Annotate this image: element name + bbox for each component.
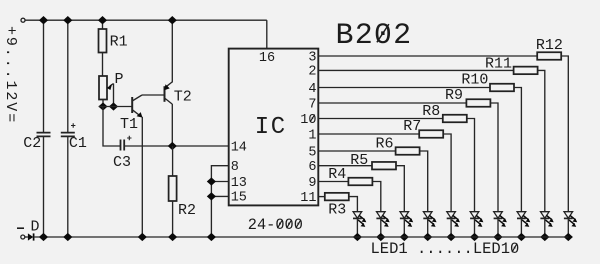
wire C1 branch top bbox=[67, 20, 69, 132]
svg-text:IC: IC bbox=[255, 114, 287, 141]
slash zero of pin 10 bbox=[310, 115, 315, 122]
label minus bbox=[17, 227, 24, 229]
svg-text:D: D bbox=[31, 219, 40, 236]
LED3 bbox=[400, 212, 413, 227]
potentiometer P bbox=[99, 76, 107, 100]
svg-text:+9...12V=: +9...12V= bbox=[2, 26, 19, 124]
wire T2 emitter to rail bbox=[171, 20, 173, 82]
wire LED10 cathode bbox=[567, 218, 569, 237]
LED9 bbox=[540, 212, 553, 227]
LED8 bbox=[517, 212, 530, 227]
svg-text:14: 14 bbox=[231, 140, 247, 155]
wire pin6 to R5 bbox=[318, 165, 372, 167]
node rail LED10 bbox=[564, 233, 573, 241]
svg-text:15: 15 bbox=[231, 191, 247, 206]
wire pin15 bbox=[211, 195, 228, 197]
wire R11 to LED9 bbox=[538, 70, 545, 211]
wire C1 branch bottom bbox=[67, 136, 69, 237]
capacitor C3 bbox=[121, 136, 132, 151]
svg-text:13: 13 bbox=[231, 176, 247, 191]
node pin14/R2/T2 junction bbox=[168, 142, 177, 150]
wire R6 to LED4 bbox=[420, 151, 428, 212]
resistor R8 bbox=[443, 115, 467, 123]
resistor R5 bbox=[372, 162, 396, 170]
wire C2 branch bottom bbox=[43, 136, 45, 237]
svg-text:C1: C1 bbox=[69, 135, 87, 152]
op IC box bbox=[229, 49, 319, 206]
svg-text:T2: T2 bbox=[174, 89, 192, 106]
wire junction to R2 bbox=[172, 146, 174, 176]
diode D bbox=[28, 233, 34, 240]
svg-text:R4: R4 bbox=[328, 166, 346, 183]
slash zero of LED10 bbox=[512, 244, 517, 253]
resistor R1 bbox=[99, 29, 107, 53]
wire pin11 to R3 bbox=[318, 196, 325, 198]
wire C2 branch top bbox=[43, 20, 45, 132]
LED6 bbox=[470, 212, 483, 227]
svg-text:8: 8 bbox=[231, 160, 239, 175]
node rail LED4 bbox=[423, 233, 432, 241]
svg-text:R10: R10 bbox=[461, 71, 488, 88]
LED4 bbox=[423, 212, 436, 227]
svg-text:R5: R5 bbox=[350, 152, 368, 169]
svg-text:R12: R12 bbox=[536, 37, 563, 54]
svg-text:6: 6 bbox=[308, 160, 316, 175]
wire T1 collector to T2 base bbox=[142, 94, 165, 96]
svg-text:C2: C2 bbox=[23, 135, 41, 152]
wire LED9 cathode bbox=[544, 218, 546, 237]
wire LED4 cathode bbox=[427, 218, 429, 237]
wire bottom rail bbox=[34, 236, 569, 238]
wire LED2 cathode bbox=[380, 218, 382, 237]
capacitor C2 bbox=[37, 133, 51, 137]
slash zeros of 24-000 bbox=[277, 220, 300, 228]
node P-T1 junction left bbox=[98, 102, 107, 110]
wire T1 emitter down bbox=[141, 117, 143, 237]
wire P down to C3 bbox=[103, 107, 121, 147]
node top rail C1 bbox=[63, 16, 72, 24]
svg-text:P: P bbox=[115, 71, 124, 88]
wire LED7 cathode bbox=[497, 218, 499, 237]
wire R4 to LED2 bbox=[372, 182, 380, 212]
wire LED3 cathode bbox=[403, 218, 405, 237]
node rail LED8 bbox=[517, 233, 526, 241]
resistor R6 bbox=[396, 147, 420, 155]
svg-text:R9: R9 bbox=[445, 87, 463, 104]
wire R10 to LED8 bbox=[514, 88, 521, 212]
slash zero of B202 bbox=[377, 24, 389, 42]
node top rail T2 bbox=[168, 16, 177, 24]
svg-text:R2: R2 bbox=[178, 202, 196, 219]
wire base feed to T1 bbox=[99, 106, 133, 108]
svg-text:11: 11 bbox=[300, 191, 316, 206]
svg-text:R8: R8 bbox=[422, 103, 440, 120]
supply terminal - (open circle) bbox=[21, 235, 25, 239]
node rail LED2 bbox=[376, 233, 385, 241]
wire T2 collector down bbox=[171, 104, 173, 146]
wire R3 to LED1 bbox=[349, 197, 358, 212]
wire terminal to diode bbox=[25, 236, 28, 238]
svg-text:C3: C3 bbox=[113, 154, 131, 171]
node pin15 junction bbox=[207, 192, 216, 200]
svg-text:LED1 ......LED10: LED1 ......LED10 bbox=[371, 240, 520, 258]
svg-text:T1: T1 bbox=[120, 116, 138, 133]
wire LED1 cathode bbox=[356, 218, 358, 237]
wire pin1 to R7 bbox=[318, 133, 419, 135]
node bottom T1 bbox=[138, 233, 147, 241]
wire pin9 to R4 bbox=[318, 181, 348, 183]
node bottom R2 bbox=[168, 233, 177, 241]
wire R5 to LED3 bbox=[396, 166, 404, 212]
resistor R3 bbox=[325, 193, 349, 201]
wire R2 bottom bbox=[172, 201, 174, 237]
wire LED8 cathode bbox=[520, 218, 522, 237]
transistor T1 bbox=[132, 95, 142, 118]
transistor T2 bbox=[164, 82, 172, 104]
svg-text:R3: R3 bbox=[328, 202, 346, 219]
resistor R9 bbox=[466, 99, 490, 107]
wire pin13 bbox=[211, 181, 228, 183]
node bottom C1 bbox=[63, 233, 72, 241]
wire R12 to LED10 bbox=[561, 56, 568, 212]
wire R7 to LED5 bbox=[443, 134, 451, 212]
svg-text:R1: R1 bbox=[110, 34, 128, 51]
svg-text:R7: R7 bbox=[403, 118, 421, 135]
node top rail C2 bbox=[39, 16, 48, 24]
node rail LED1 bbox=[353, 233, 362, 241]
svg-text:2: 2 bbox=[308, 65, 316, 80]
node rail LED5 bbox=[447, 233, 456, 241]
wire pin3 to R12 bbox=[318, 55, 537, 57]
wire R1 top bbox=[102, 20, 104, 29]
node P wiper junction bbox=[109, 102, 118, 110]
svg-text:7: 7 bbox=[308, 97, 316, 112]
wire pin5 to R6 bbox=[318, 150, 395, 152]
wire pin2 to R11 bbox=[318, 69, 513, 71]
capacitor C1 bbox=[61, 123, 76, 136]
supply terminal + (open circle) bbox=[21, 18, 25, 22]
wire LED6 cathode bbox=[474, 218, 476, 237]
wire pin10 to R8 bbox=[318, 118, 443, 120]
resistor R7 bbox=[419, 130, 443, 138]
LED5 bbox=[447, 212, 460, 227]
wire pin8 bbox=[211, 166, 228, 237]
svg-text:B202: B202 bbox=[336, 19, 413, 53]
resistor R12 bbox=[537, 52, 561, 60]
wire R9 to LED7 bbox=[490, 103, 498, 212]
wire top rail bbox=[25, 19, 267, 21]
node top rail R1 bbox=[98, 16, 107, 24]
resistor R2 bbox=[169, 176, 177, 201]
node rail LED3 bbox=[400, 233, 409, 241]
wire P bottom bbox=[102, 100, 104, 107]
wire pin4 to R10 bbox=[318, 87, 490, 89]
resistor R10 bbox=[490, 84, 514, 92]
svg-text:R6: R6 bbox=[376, 136, 394, 153]
node bottom pin8/13/15 bbox=[207, 233, 216, 241]
node rail LED7 bbox=[493, 233, 502, 241]
svg-text:16: 16 bbox=[259, 51, 275, 66]
svg-text:24-000: 24-000 bbox=[248, 216, 303, 234]
svg-text:3: 3 bbox=[308, 50, 316, 65]
LED7 bbox=[494, 212, 507, 227]
wire R1 to P bbox=[102, 53, 104, 77]
wire R8 to LED6 bbox=[467, 119, 475, 212]
LED2 bbox=[376, 212, 389, 227]
svg-text:9: 9 bbox=[308, 176, 316, 191]
node pin13 junction bbox=[207, 177, 216, 185]
resistor R11 bbox=[514, 67, 538, 75]
LED1 bbox=[353, 212, 366, 227]
svg-text:1: 1 bbox=[308, 128, 316, 143]
wire pin7 to R9 bbox=[318, 102, 466, 104]
LED10 bbox=[564, 212, 577, 227]
node bottom C2 bbox=[39, 233, 48, 241]
svg-text:R11: R11 bbox=[485, 56, 512, 73]
svg-text:4: 4 bbox=[308, 82, 316, 97]
node rail LED6 bbox=[470, 233, 479, 241]
wire C3 to IC pin14 bbox=[124, 145, 229, 147]
pot wiper arrow bbox=[107, 84, 114, 107]
resistor R4 bbox=[348, 178, 372, 186]
svg-text:5: 5 bbox=[308, 145, 316, 160]
wire LED5 cathode bbox=[450, 218, 452, 237]
wire pin16 drop bbox=[266, 20, 268, 48]
node rail LED9 bbox=[540, 233, 549, 241]
